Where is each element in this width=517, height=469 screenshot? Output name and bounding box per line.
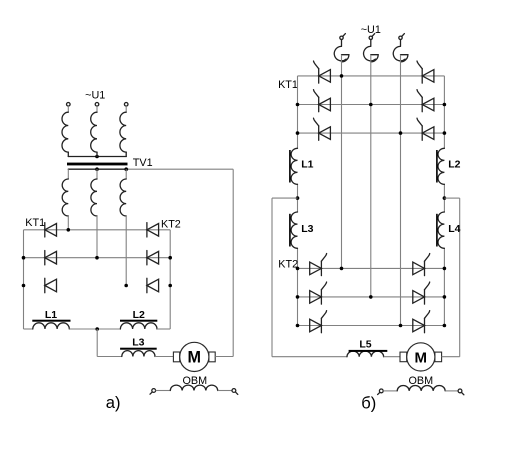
thyristor KT1 row 3 (floating) bbox=[45, 278, 57, 292]
wire right rail mid segment (right circuit) bbox=[443, 184, 445, 212]
wire L3 to motor bbox=[155, 356, 174, 358]
inductor L3 coil (right circuit) bbox=[291, 212, 297, 248]
inductor L3 core bar bbox=[120, 348, 157, 350]
node KT2 row3 right bbox=[443, 324, 447, 328]
node row 2 phase 2 bbox=[95, 256, 99, 260]
node secondary bus phase 2 bbox=[95, 167, 99, 171]
wire KT1 row 3 bbox=[298, 132, 445, 134]
node KT2 row2 left bbox=[296, 295, 300, 299]
tick OBM left terminal (right circuit) bbox=[378, 392, 380, 394]
inductor L1 coil bbox=[33, 323, 70, 329]
inductor L3 core bar (right circuit) bbox=[289, 214, 291, 247]
wire OBM right lead bbox=[218, 390, 232, 392]
thyristor KT1 right row 1 bbox=[417, 61, 434, 83]
svg-text:KT1: KT1 bbox=[25, 217, 45, 229]
wire motor to outer right wire bbox=[215, 356, 233, 358]
transformer TV1 core bar bbox=[67, 163, 128, 166]
inductor L4 core bar bbox=[436, 214, 438, 247]
wire KT2 row 2 bbox=[298, 296, 445, 298]
inductor L1 core bar (right circuit) bbox=[289, 150, 291, 183]
node KT1 row2 left bbox=[296, 103, 300, 107]
thyristor KT1 row 1 bbox=[45, 223, 57, 237]
wire bottom bus to L5 bbox=[272, 356, 347, 358]
node secondary bus phase 3 bbox=[124, 167, 128, 171]
wire TV1 primary star link bbox=[68, 156, 126, 158]
motor M (right) bbox=[400, 343, 442, 371]
thyristor KT2 right row 2 bbox=[413, 282, 430, 304]
thyristor KT2 row 2 bbox=[147, 251, 159, 265]
tick OBM left terminal bbox=[150, 392, 152, 394]
svg-text:M: M bbox=[415, 349, 428, 366]
node row 1 phase 1 bbox=[67, 228, 71, 232]
thyristor KT2 row 1 bbox=[147, 223, 159, 237]
node KT1 row3 phase3 bbox=[399, 131, 403, 135]
wire right rail bbox=[169, 230, 171, 329]
svg-text:L5: L5 bbox=[359, 339, 371, 351]
inductor L3 coil bbox=[122, 351, 155, 357]
thyristor KT2 right row 3 bbox=[413, 311, 430, 333]
node row 3 right rail bbox=[168, 284, 172, 288]
wire OBM right lead (right circuit) bbox=[445, 390, 458, 392]
thyristor KT1 row 2 bbox=[45, 251, 57, 265]
node row 3 left rail bbox=[22, 284, 26, 288]
tick OBM right terminal (right circuit) bbox=[462, 393, 464, 395]
thyristor KT2 row 3 (floating) bbox=[147, 278, 159, 292]
thyristor KT1 left row 3 bbox=[314, 118, 331, 140]
inductor L5 coil bbox=[347, 351, 384, 357]
node KT2 row3 phase3 bbox=[399, 324, 403, 328]
thyristor KT2 right row 1 bbox=[413, 254, 430, 276]
connector terminal phase 3 (right) bbox=[393, 34, 408, 62]
terminal OBM left bbox=[152, 389, 156, 393]
wire OBM left lead bbox=[156, 390, 171, 392]
wire outer right drop to motor bbox=[232, 169, 234, 356]
wire KT1 row 1 bbox=[298, 75, 445, 77]
inductor L2 core bar bbox=[436, 150, 438, 183]
terminal OBM left (right circuit) bbox=[379, 389, 383, 393]
wire TV1 secondary top bus bbox=[68, 168, 233, 170]
node KT1 row3 left bbox=[296, 131, 300, 135]
wire right branch bbox=[444, 198, 459, 357]
wire left rail lower segment (right circuit) bbox=[297, 248, 299, 325]
wire KT1 row 2 bbox=[298, 104, 445, 106]
wire phase 1 drop bbox=[341, 55, 343, 269]
thyristor KT1 left row 2 bbox=[314, 90, 331, 112]
terminal phase 2 of ~U1 (left) bbox=[95, 103, 99, 107]
svg-text:M: M bbox=[188, 348, 201, 366]
inductor L1 core bar bbox=[32, 320, 70, 322]
node row 3 phase 3 bbox=[124, 284, 128, 288]
inductor L2 core bar bbox=[120, 320, 157, 322]
inductor L4 coil bbox=[438, 212, 444, 248]
wire right rail upper segment (right circuit) bbox=[443, 76, 445, 148]
node KT2 row1 phase1 bbox=[340, 267, 344, 271]
wire OBM left lead (right circuit) bbox=[383, 390, 397, 392]
wire rectifier row 1 bbox=[24, 229, 171, 231]
wire left rail upper segment (right circuit) bbox=[297, 76, 299, 148]
svg-text:L2: L2 bbox=[448, 159, 460, 171]
transformer TV1 primary winding 3 bbox=[120, 112, 126, 152]
wire motor row to L3 bbox=[97, 356, 122, 358]
thyristor KT1 right row 2 bbox=[417, 90, 434, 112]
transformer TV1 primary winding 1 bbox=[62, 112, 68, 152]
node KT1 row2 phase2 bbox=[369, 103, 373, 107]
wire left rail bbox=[23, 230, 25, 329]
wire bottom bus right segment bbox=[157, 328, 170, 330]
node KT1 row1 phase1 bbox=[340, 74, 344, 78]
svg-text:L1: L1 bbox=[45, 309, 57, 321]
wire phase 2 drop bbox=[370, 55, 372, 297]
inductor L5 core bar bbox=[349, 350, 388, 352]
svg-text:L2: L2 bbox=[133, 309, 145, 321]
svg-text:~U1: ~U1 bbox=[361, 24, 381, 36]
svg-text:L1: L1 bbox=[301, 159, 313, 171]
inductor L1 coil (right circuit) bbox=[291, 148, 297, 184]
svg-text:L3: L3 bbox=[301, 223, 313, 235]
wire terminal 1 to TV1 primary bbox=[67, 106, 69, 112]
tick OBM right terminal bbox=[236, 392, 238, 394]
wire phase 2 to row 2 bbox=[96, 216, 98, 258]
thyristor KT1 left row 1 bbox=[314, 61, 331, 83]
node KT2 row3 left bbox=[296, 324, 300, 328]
inductor L2 coil bbox=[438, 148, 444, 184]
wire KT2 row 3 bbox=[298, 325, 445, 327]
terminal phase 3 of ~U1 (left) bbox=[124, 103, 128, 107]
thyristor KT2 left row 1 bbox=[310, 254, 327, 276]
wire terminal 2 to TV1 primary bbox=[96, 106, 98, 112]
transformer TV1 secondary winding 1 bbox=[62, 179, 68, 216]
svg-text:~U1: ~U1 bbox=[85, 90, 105, 102]
connector terminal phase 1 (right) bbox=[334, 34, 349, 62]
thyristor KT2 left row 3 bbox=[310, 311, 327, 333]
wire secondary bus to winding 1 bbox=[67, 169, 69, 179]
node KT2 row1 left bbox=[296, 267, 300, 271]
node KT1 row3 right bbox=[443, 131, 447, 135]
inductor L2 coil bbox=[120, 323, 157, 329]
winding OBM coil (left) bbox=[170, 385, 217, 390]
terminal OBM right (right circuit) bbox=[458, 389, 462, 393]
node KT1 row2 right bbox=[443, 103, 447, 107]
wire secondary bus to winding 2 bbox=[96, 169, 98, 179]
node TV1 primary star point bbox=[95, 155, 99, 159]
transformer TV1 primary winding 2 bbox=[91, 112, 97, 152]
svg-text:ОВМ: ОВМ bbox=[409, 375, 434, 387]
wire right rail lower segment (right circuit) bbox=[443, 248, 445, 325]
terminal phase 1 of ~U1 (left) bbox=[67, 103, 71, 107]
connector terminal phase 2 (right) bbox=[364, 34, 379, 62]
transformer TV1 secondary winding 2 bbox=[91, 179, 97, 216]
wire left branch bbox=[272, 198, 298, 357]
wire motor to right branch bbox=[442, 356, 460, 358]
wire rectifier row 2 bbox=[24, 257, 171, 259]
thyristor KT1 right row 3 bbox=[417, 118, 434, 140]
node right branch junction bbox=[443, 196, 447, 200]
svg-text:KT2: KT2 bbox=[161, 219, 181, 231]
wire KT2 row 1 bbox=[298, 267, 445, 269]
wire secondary bus to winding 3 bbox=[125, 169, 127, 179]
terminal OBM right bbox=[232, 389, 236, 393]
wire terminal 3 to TV1 primary bbox=[125, 106, 127, 112]
svg-text:L4: L4 bbox=[448, 223, 460, 235]
motor M (left) bbox=[173, 342, 215, 371]
wire L5 to motor bbox=[384, 356, 400, 358]
node bottom bus to L3 bbox=[95, 327, 99, 331]
wire bottom bus drop to motor row bbox=[96, 329, 98, 357]
wire phase 1 to row 1 bbox=[67, 216, 69, 230]
thyristor KT2 left row 2 bbox=[310, 282, 327, 304]
node KT2 row2 phase2 bbox=[369, 295, 373, 299]
svg-text:а): а) bbox=[106, 393, 121, 412]
svg-text:L3: L3 bbox=[132, 336, 144, 348]
wire TV1 primary coil stubs bbox=[68, 152, 126, 156]
node left branch junction bbox=[296, 196, 300, 200]
wire phase 3 to row 3 bbox=[125, 216, 127, 286]
wire left rail mid segment (right circuit) bbox=[297, 184, 299, 212]
wire phase 3 drop bbox=[400, 55, 402, 326]
svg-text:KT1: KT1 bbox=[278, 79, 298, 91]
node row 2 left rail bbox=[22, 256, 26, 260]
winding OBM coil (right circuit) bbox=[397, 386, 445, 391]
wire bottom bus middle segment bbox=[69, 328, 120, 330]
node KT2 row2 right bbox=[443, 295, 447, 299]
node KT2 row1 right bbox=[443, 267, 447, 271]
svg-text:б): б) bbox=[361, 393, 376, 412]
wire bottom bus left segment bbox=[24, 328, 33, 330]
node row 2 right rail bbox=[168, 256, 172, 260]
svg-text:KT2: KT2 bbox=[278, 258, 298, 270]
transformer TV1 secondary winding 3 bbox=[120, 179, 126, 216]
svg-text:TV1: TV1 bbox=[133, 157, 153, 169]
